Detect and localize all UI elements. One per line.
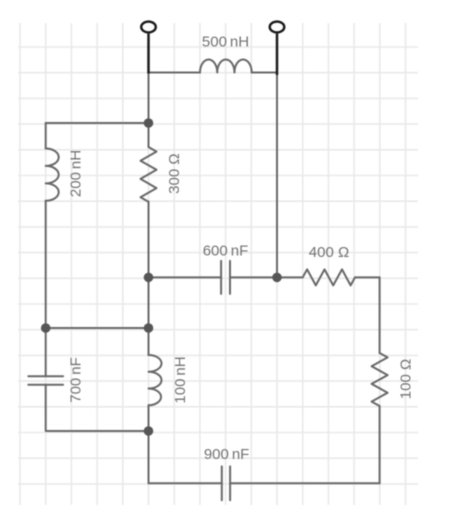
wire x=45.7 from 200nH to 700nF top plate xyxy=(45,201,47,376)
svg-text:300 Ω: 300 Ω xyxy=(166,153,183,193)
junction node at (148.5,277.4) xyxy=(144,273,154,283)
svg-text:500 nH: 500 nH xyxy=(202,34,249,51)
resistor R1 300 ohm xyxy=(141,147,157,202)
inductor L2 200 nH xyxy=(46,149,59,201)
wire x=379.6 from 100ohm to bottom corner xyxy=(379,406,381,483)
grid background xyxy=(18,23,418,505)
wire x=148.5 row2 to 100nH xyxy=(148,328,150,355)
svg-text:700 nF: 700 nF xyxy=(67,357,84,403)
wire x=45.7 from row1 to 200nH xyxy=(45,123,47,149)
wire x=148.5 from 300ohm to mid node xyxy=(148,202,150,278)
junction node at (45.7,328) xyxy=(41,323,51,333)
junction node at (277,277.4) xyxy=(272,273,282,283)
svg-text:600 nF: 600 nF xyxy=(203,243,249,260)
resistor R3 100 ohm xyxy=(372,353,388,406)
terminal stub left xyxy=(147,34,150,74)
junction node at (148.5,328) xyxy=(144,323,154,333)
terminal stub right xyxy=(276,34,279,75)
resistor R2 400 ohm xyxy=(303,269,355,285)
svg-text:100 nH: 100 nH xyxy=(172,356,189,403)
inductor L1 500 nH xyxy=(200,59,252,72)
capacitor C2 600 nF plates xyxy=(221,261,230,294)
capacitor C3 900 nF plates xyxy=(222,466,230,500)
svg-text:400 Ω: 400 Ω xyxy=(309,244,349,261)
wire 600nF right plate to node x=277 xyxy=(230,276,277,278)
wire x=148.5 mid node to row2 xyxy=(148,277,150,328)
junction node at (148.5,123) xyxy=(144,118,154,128)
wire row2 horizontal xyxy=(46,327,149,329)
capacitor C1 700 nF plates xyxy=(28,376,63,384)
wire x=277 vertical from top wire to mid node xyxy=(276,73,278,278)
terminal circle left xyxy=(141,22,156,33)
wire bottom to 900nF left plate xyxy=(149,482,222,484)
junction node at (148.5,431) xyxy=(144,426,154,436)
wire mid node to 600nF left plate xyxy=(149,276,222,278)
wire top horizontal left of 500nH xyxy=(149,72,201,74)
wire node row1 horizontal xyxy=(46,122,149,124)
wire x=379.6 from corner down to 100ohm xyxy=(379,277,381,353)
terminal circle right xyxy=(270,22,285,33)
wire 900nF right plate to bottom right corner xyxy=(230,482,380,484)
wire node x=277 to 400ohm xyxy=(277,276,303,278)
wire x=45.7 from 700nF to corner and across to node xyxy=(46,385,149,431)
svg-text:100 Ω: 100 Ω xyxy=(397,359,414,399)
wire top horizontal right of 500nH xyxy=(252,72,277,74)
svg-text:900 nF: 900 nF xyxy=(204,446,250,463)
wire 400ohm to right corner xyxy=(355,276,380,278)
inductor L3 100 nH xyxy=(149,355,162,405)
svg-text:200 nH: 200 nH xyxy=(68,150,85,197)
wire x=148.5 from top wire to 300ohm xyxy=(148,73,150,148)
wire x=148.5 from 100nH through node to bottom corner xyxy=(148,405,150,483)
